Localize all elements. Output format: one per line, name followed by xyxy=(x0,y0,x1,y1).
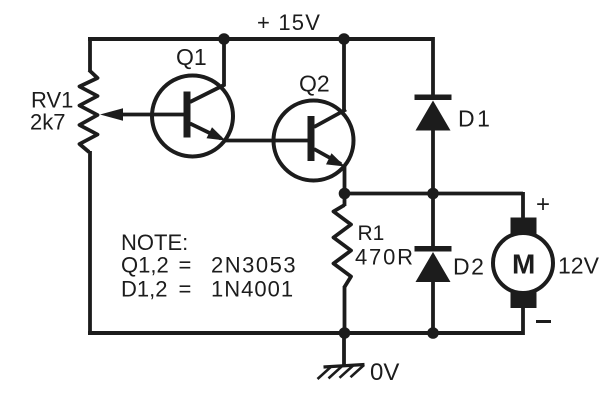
wire: Q2 emitter down to output node xyxy=(343,166,347,195)
junction dot: node at D1/D2 junction xyxy=(427,188,439,200)
junction dot: node at Q2 emitter / R1 top xyxy=(339,188,351,200)
wire: +15V top supply rail xyxy=(88,37,433,41)
potentiometer RV1 body (zigzag) xyxy=(80,70,98,152)
svg-text:2N3053: 2N3053 xyxy=(211,253,297,278)
svg-text:=: = xyxy=(179,277,192,302)
wire: Q1 collector to +15V rail xyxy=(222,37,226,86)
label R1 xyxy=(358,222,385,245)
label + (motor positive terminal) xyxy=(536,191,550,218)
label D1 xyxy=(458,106,492,132)
diode D2 xyxy=(415,192,452,335)
diode D1 xyxy=(415,37,452,195)
junction dot: Q1 collector on +15V rail xyxy=(218,33,230,45)
junction dot: D2 anode on 0V rail xyxy=(427,327,439,339)
wire: left rail upper segment xyxy=(88,37,92,71)
svg-text:R1: R1 xyxy=(358,222,385,245)
label - (motor negative terminal) xyxy=(536,320,551,323)
svg-text:+: + xyxy=(536,191,550,218)
label 0V xyxy=(370,359,399,386)
svg-text:=: = xyxy=(179,253,192,278)
note text block xyxy=(121,230,297,302)
wire: left rail lower segment xyxy=(88,151,92,335)
svg-text:D1: D1 xyxy=(458,106,492,132)
label Q1 xyxy=(176,44,207,70)
svg-text:Q2: Q2 xyxy=(299,71,330,97)
label +15V xyxy=(257,10,321,35)
junction dot: Q2 collector on +15V rail xyxy=(338,33,350,45)
motor M 12V xyxy=(493,218,553,309)
svg-text:2k7: 2k7 xyxy=(30,110,65,135)
wire: motor - terminal down to 0V rail xyxy=(521,306,525,335)
svg-text:M: M xyxy=(512,249,535,280)
wire: output node down to motor + terminal xyxy=(521,192,525,220)
svg-text:1N4001: 1N4001 xyxy=(211,277,294,302)
svg-text:12V: 12V xyxy=(558,253,600,279)
svg-text:Q1,2: Q1,2 xyxy=(121,253,169,278)
wire: output node horizontal run to motor branch xyxy=(345,192,524,196)
svg-text:D1,2: D1,2 xyxy=(121,277,167,302)
wire: Q2 collector to +15V rail xyxy=(342,37,346,111)
label 470R xyxy=(355,245,415,270)
ground (0V chassis symbol) xyxy=(318,333,365,379)
svg-text:470R: 470R xyxy=(355,245,415,270)
potentiometer RV1 wiper arrow xyxy=(100,108,187,121)
svg-text:Q1: Q1 xyxy=(176,44,207,70)
resistor R1 body (zigzag) xyxy=(334,192,352,335)
svg-text:0V: 0V xyxy=(370,359,399,386)
svg-text:D2: D2 xyxy=(453,254,485,280)
label Q2 xyxy=(299,71,330,97)
wire: bottom 0V rail xyxy=(88,331,524,335)
transistor Q2 xyxy=(274,101,354,181)
label RV1 xyxy=(31,88,73,113)
junction dot: R1 bottom / ground on 0V rail xyxy=(339,327,351,339)
svg-text:NOTE:: NOTE: xyxy=(121,230,188,255)
svg-text:+ 15V: + 15V xyxy=(257,10,321,35)
label 2k7 xyxy=(30,110,65,135)
wire: Q1 emitter to Q2 base xyxy=(224,139,309,143)
transistor Q1 xyxy=(152,76,233,157)
label 12V xyxy=(558,253,600,279)
label D2 xyxy=(453,254,485,280)
